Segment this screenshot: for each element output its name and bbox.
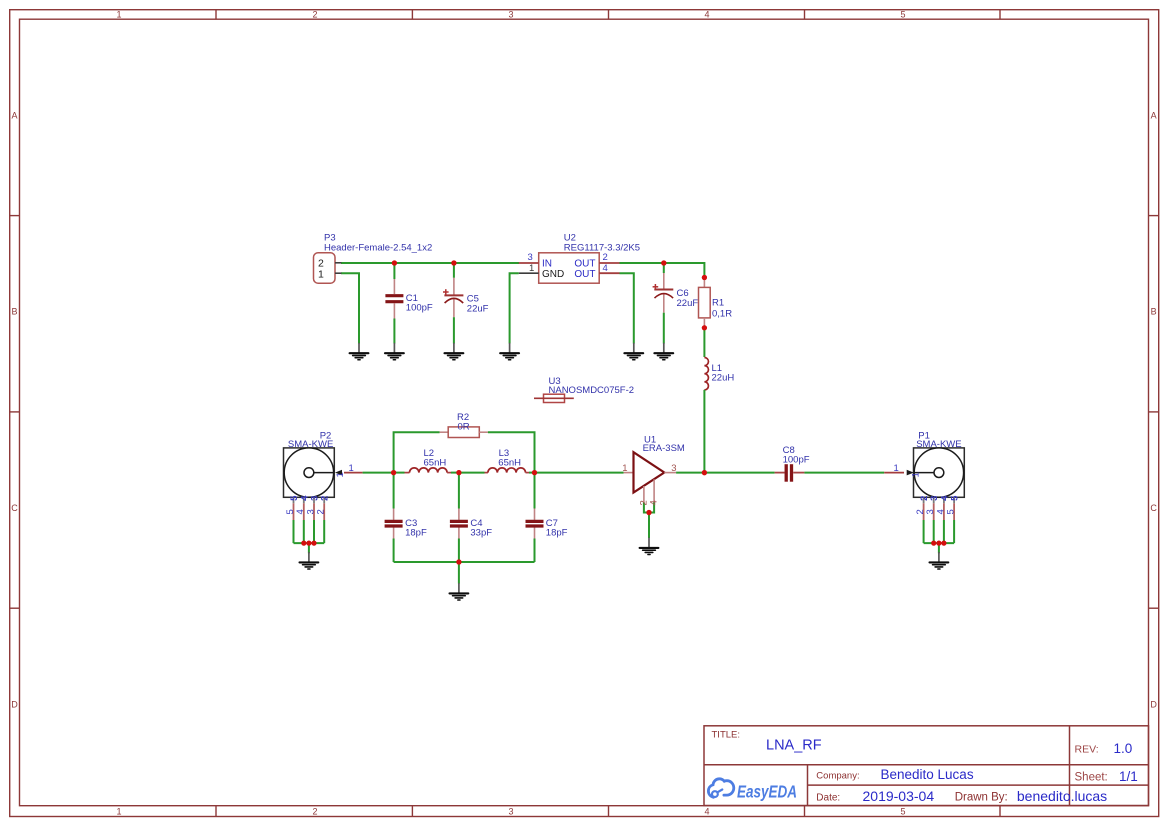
capacitor C7 bbox=[526, 518, 568, 539]
node dot middle bbox=[456, 470, 461, 475]
wire: R2 bypass loop right bbox=[488, 432, 535, 472]
wire: U2 GND to ground bbox=[510, 273, 519, 343]
svg-text:18pF: 18pF bbox=[405, 528, 427, 539]
svg-text:65nH: 65nH bbox=[424, 457, 447, 468]
svg-text:Header-Female-2.54_1x2: Header-Female-2.54_1x2 bbox=[324, 243, 432, 254]
node dot right of L3 bbox=[532, 470, 537, 475]
svg-text:22uF: 22uF bbox=[467, 304, 489, 315]
svg-text:22uF: 22uF bbox=[677, 298, 699, 309]
svg-text:5: 5 bbox=[900, 807, 905, 817]
connector P2 bbox=[284, 431, 354, 498]
svg-text:OUT: OUT bbox=[574, 269, 595, 280]
capacitor C3 bbox=[385, 518, 427, 539]
svg-text:GND: GND bbox=[542, 269, 564, 280]
node dots on P2 bus bbox=[301, 541, 316, 546]
wire: P1 ground bus bbox=[924, 520, 955, 553]
svg-text:C: C bbox=[1150, 503, 1157, 513]
svg-text:D: D bbox=[11, 700, 18, 710]
node dot at C6 bbox=[661, 260, 666, 265]
svg-text:benedito.lucas: benedito.lucas bbox=[1017, 788, 1107, 804]
wire: U1 pins 2,4 to ground bbox=[644, 503, 654, 539]
wire: bottom bus of pi filter bbox=[394, 561, 535, 563]
svg-text:65nH: 65nH bbox=[498, 457, 521, 468]
svg-text:22uH: 22uH bbox=[712, 373, 735, 384]
inductor L1 bbox=[704, 358, 734, 390]
node dot U1 ground bbox=[646, 510, 651, 515]
ground (P2) bbox=[300, 552, 319, 569]
wire: U1 pin3 out bbox=[664, 472, 676, 474]
node dot bottom bus bbox=[456, 559, 461, 564]
svg-text:Benedito Lucas: Benedito Lucas bbox=[881, 767, 974, 782]
P1 bottom pins bbox=[915, 495, 961, 520]
svg-text:IN: IN bbox=[542, 259, 552, 270]
EasyEDA logo bbox=[708, 779, 797, 802]
svg-text:3: 3 bbox=[508, 10, 513, 20]
svg-text:2: 2 bbox=[316, 509, 327, 514]
wire: C1 leads bbox=[393, 263, 395, 344]
svg-text:Date:: Date: bbox=[816, 793, 840, 804]
svg-text:4: 4 bbox=[649, 500, 660, 505]
wire: P2 to node bbox=[363, 472, 394, 474]
svg-text:Drawn By:: Drawn By: bbox=[955, 792, 1008, 804]
svg-text:100pF: 100pF bbox=[783, 454, 810, 465]
svg-text:OUT: OUT bbox=[574, 259, 595, 270]
wire: C6 leads bbox=[663, 263, 665, 344]
wire: P3 pin1 down to ground bbox=[341, 273, 359, 343]
wire: node to L2 bbox=[394, 472, 405, 474]
svg-text:A: A bbox=[11, 111, 17, 121]
svg-text:4: 4 bbox=[704, 10, 709, 20]
node dot at supply join bbox=[702, 470, 707, 475]
wire: node to L3 bbox=[459, 472, 485, 474]
svg-text:1/1: 1/1 bbox=[1119, 769, 1138, 784]
svg-text:D: D bbox=[1150, 700, 1157, 710]
wire: C3 leads bbox=[393, 473, 395, 562]
wire: U2 pin4 to ground bbox=[620, 273, 634, 343]
svg-text:4: 4 bbox=[704, 807, 709, 817]
ground (U1) bbox=[640, 538, 659, 555]
ground (P3 pin1) bbox=[350, 343, 369, 360]
svg-text:REV:: REV: bbox=[1075, 744, 1099, 756]
node dot below R1 bbox=[702, 325, 707, 330]
wire: L2 to node bbox=[447, 472, 451, 474]
svg-text:1.0: 1.0 bbox=[1114, 741, 1133, 756]
inductor L3 bbox=[488, 448, 526, 472]
svg-text:A: A bbox=[1151, 111, 1157, 121]
svg-text:4: 4 bbox=[603, 263, 608, 274]
capacitor C8 bbox=[783, 445, 810, 482]
capacitor C4 bbox=[450, 518, 492, 539]
connector P1 bbox=[894, 431, 965, 498]
wire: node to C8 bbox=[704, 472, 774, 474]
resistor R2 bbox=[440, 412, 488, 437]
amplifier U1 bbox=[622, 434, 685, 492]
capacitor C6 (polarized) bbox=[653, 284, 699, 309]
wire: L3 node to U1 pin1 bbox=[535, 472, 624, 474]
svg-text:2019-03-04: 2019-03-04 bbox=[863, 788, 935, 804]
inductor L2 bbox=[410, 448, 448, 472]
wire: U2 OUT rail to R1 bbox=[620, 263, 705, 278]
svg-text:B: B bbox=[11, 307, 17, 317]
svg-text:3: 3 bbox=[508, 807, 513, 817]
svg-text:33pF: 33pF bbox=[470, 528, 492, 539]
svg-text:1: 1 bbox=[116, 807, 121, 817]
svg-text:2: 2 bbox=[312, 10, 317, 20]
capacitor C5 (polarized) bbox=[443, 289, 489, 314]
fuse U3 bbox=[534, 376, 634, 402]
connector P3 bbox=[314, 233, 433, 284]
frame row labels left bbox=[11, 111, 18, 710]
svg-text:1: 1 bbox=[529, 263, 534, 274]
wire: R1 to L1 bbox=[703, 328, 705, 357]
wire: C4 leads bbox=[458, 473, 460, 562]
svg-text:SMA-KWE: SMA-KWE bbox=[288, 439, 333, 450]
regulator U2 bbox=[519, 233, 640, 284]
svg-text:3: 3 bbox=[528, 252, 533, 263]
svg-text:REG1117-3.3/2K5: REG1117-3.3/2K5 bbox=[564, 243, 640, 254]
wire: P2 pin1 stub bbox=[344, 472, 363, 474]
svg-text:1: 1 bbox=[911, 472, 922, 477]
wire: C8 to P1 bbox=[793, 472, 804, 474]
svg-text:ERA-3SM: ERA-3SM bbox=[643, 443, 685, 454]
wire: C7 leads bbox=[534, 473, 536, 562]
wire: R2 bypass loop left bbox=[394, 432, 440, 472]
wire: P3 pin2 to U2 pin3 rail bbox=[341, 262, 519, 264]
U1 pins 2,4 bbox=[644, 479, 654, 502]
frame column labels top bbox=[116, 10, 905, 20]
frame row labels right bbox=[1150, 111, 1157, 710]
svg-text:Sheet:: Sheet: bbox=[1075, 772, 1108, 784]
svg-text:0R: 0R bbox=[458, 422, 470, 433]
svg-text:SMA-KWE: SMA-KWE bbox=[916, 439, 961, 450]
ground (C1) bbox=[385, 343, 404, 360]
resistor R1 bbox=[699, 278, 733, 328]
P2 bottom pins bbox=[285, 495, 331, 520]
svg-text:5: 5 bbox=[900, 10, 905, 20]
U1 pin number labels 2,4 bbox=[638, 500, 659, 505]
svg-text:NANOSMDC075F-2: NANOSMDC075F-2 bbox=[549, 385, 635, 396]
junction dots top layer bbox=[391, 260, 707, 564]
frame column labels bottom bbox=[116, 807, 905, 817]
ground (U2 pin4) bbox=[624, 343, 643, 360]
ground (U2 GND) bbox=[500, 343, 519, 360]
svg-text:LNA_RF: LNA_RF bbox=[766, 738, 822, 754]
node dot at C1 bbox=[392, 260, 397, 265]
svg-text:18pF: 18pF bbox=[546, 528, 568, 539]
svg-text:EasyEDA: EasyEDA bbox=[737, 783, 797, 802]
svg-text:R1: R1 bbox=[712, 298, 724, 309]
svg-text:2: 2 bbox=[320, 496, 331, 501]
ground (C6) bbox=[654, 343, 673, 360]
svg-text:1: 1 bbox=[894, 463, 899, 474]
node dot above R1 bbox=[702, 275, 707, 280]
svg-text:0,1R: 0,1R bbox=[712, 309, 732, 320]
node dot at C5 bbox=[451, 260, 456, 265]
wire: C5 leads bbox=[453, 263, 455, 344]
wire: P2 ground bus bbox=[294, 520, 325, 553]
svg-text:1: 1 bbox=[116, 10, 121, 20]
capacitor C1 bbox=[385, 293, 433, 313]
svg-text:B: B bbox=[1151, 307, 1157, 317]
svg-text:Company:: Company: bbox=[816, 771, 859, 782]
svg-text:C: C bbox=[11, 503, 18, 513]
svg-text:1: 1 bbox=[318, 268, 324, 280]
ground (P1) bbox=[930, 552, 949, 569]
svg-text:1: 1 bbox=[622, 463, 627, 474]
title block texts bbox=[712, 730, 1138, 805]
svg-text:5: 5 bbox=[950, 495, 961, 501]
title block frame bbox=[704, 726, 1149, 806]
wire: bus to ground bbox=[458, 562, 460, 584]
node dot left of L2 bbox=[391, 470, 396, 475]
wire: L3 to node bbox=[526, 472, 530, 474]
svg-text:2: 2 bbox=[312, 807, 317, 817]
ground (pi filter) bbox=[450, 583, 469, 600]
svg-text:5: 5 bbox=[946, 509, 957, 514]
wire: L1 down to main rail bbox=[703, 390, 705, 473]
svg-text:100pF: 100pF bbox=[406, 302, 433, 313]
node dots on P1 bus bbox=[931, 541, 946, 546]
svg-text:2: 2 bbox=[603, 252, 608, 263]
ground (C5) bbox=[445, 343, 464, 360]
svg-text:TITLE:: TITLE: bbox=[712, 730, 741, 741]
